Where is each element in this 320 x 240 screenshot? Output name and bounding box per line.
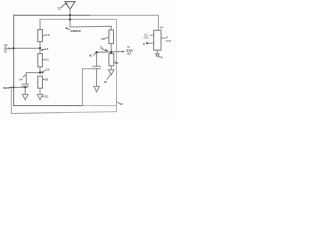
svg-text:32: 32 [45,95,49,99]
svg-text:22: 22 [45,57,49,61]
wire antenna feed [70,9,111,30]
wire inner bottom rail [14,105,83,107]
ground cap 66 [94,86,100,91]
junction node antenna rail1 [69,14,71,16]
leader 20 [117,102,120,103]
terminal B [146,42,148,44]
leader 22 [43,59,45,61]
pin right [161,37,165,39]
junction node 18 [39,47,41,49]
pin left 2 [148,42,154,44]
svg-text:76: 76 [159,55,163,59]
wire node 18 to R22 [39,48,41,53]
arrowhead antenna [65,27,67,29]
resistor 22 [38,54,43,67]
resistor 68 top center [109,30,114,44]
wire R16 to node 18 [39,42,41,49]
svg-text:18: 18 [45,47,49,51]
arrowhead bias [10,87,12,89]
wire inner bottom rail right [83,105,117,107]
wire cap branch [26,73,40,85]
svg-text:OUT: OUT [127,52,132,56]
leader 18 [42,48,45,51]
resistor 28 [38,76,43,88]
svg-text:ANTENNA: ANTENNA [70,29,82,33]
leader 26 [42,70,46,72]
mixer box U1 [154,30,161,50]
leader 32 [41,95,44,98]
leader 16 [43,35,46,36]
arrowhead rf in [12,48,14,50]
leader 34 [114,61,116,64]
arrowhead 18 [41,49,43,51]
wire R34 to ground 36 [110,66,112,70]
wire outer bottom rail right [60,112,117,113]
wire outer bottom rail [11,112,60,115]
leader 76 [158,56,159,57]
svg-text:OSC: OSC [144,36,150,39]
svg-text:28: 28 [45,78,49,82]
arrowhead 26 [41,72,43,74]
svg-text:OUT: OUT [166,40,172,43]
arrow bias [9,87,11,89]
svg-text:34: 34 [115,61,119,65]
ground 36 [108,70,114,75]
wire C66 to ground [96,69,98,87]
pin bottom [156,50,158,54]
svg-text:70: 70 [99,45,103,49]
wire left vertical bus [13,15,15,105]
junction node center [110,51,112,53]
arrowhead 70 [106,49,108,52]
leader antenna label [66,28,69,30]
wire R28 to ground [39,88,41,94]
junction node antenna rail2 [69,18,71,20]
wire top rail V+ [14,14,90,16]
wire right riser [116,19,118,111]
junction node 26 [39,71,41,73]
wire cap 66 drop [96,52,98,66]
leader 28 [43,78,45,80]
svg-text:24: 24 [160,26,164,30]
svg-text:IN: IN [4,50,7,54]
arrow rf in [10,47,13,49]
junction node bias [13,86,15,88]
wire left column top drop [39,19,41,29]
pin left 1 [150,34,154,36]
junction node cap 66 [95,51,97,53]
svg-text:68: 68 [101,37,105,41]
leader 66 [94,53,96,55]
antenna [65,2,75,10]
wire U branch [82,69,93,106]
wire second top rail [40,18,117,20]
capacitor 64 [22,84,29,86]
svg-text:66: 66 [89,53,93,57]
svg-text:64: 64 [19,77,23,81]
svg-text:12: 12 [57,7,61,11]
wire RF input [14,47,40,49]
leader 68 [105,37,109,39]
arrow IF out [122,50,125,53]
leader 64 [23,75,25,77]
svg-text:B: B [143,42,145,46]
wire top rail V+ right [90,15,158,30]
capacitor 66 [93,66,101,68]
svg-text:36: 36 [104,80,108,84]
wire R22 to node 26 [39,67,41,73]
junction node RF [13,47,15,49]
wire bias feed [11,86,27,88]
leader 36 [107,75,110,79]
wire R68 to node 70 [110,44,112,54]
resistor 34 center [109,54,114,66]
ground left column [37,94,43,99]
wire outer left riser [10,87,12,113]
resistor 16 [38,30,43,42]
ground box [156,54,160,57]
svg-text:16: 16 [46,33,50,37]
leader 12 [61,4,65,8]
leader 70 [102,49,106,51]
arrowhead 12 [65,3,67,5]
ground bias cap [22,94,28,99]
junction node cap bias [24,86,26,88]
svg-text:26: 26 [46,68,50,72]
svg-text:20: 20 [120,102,124,106]
wire IF out [97,51,123,54]
wire C64 to ground [24,86,26,94]
svg-text:BIAS: BIAS [3,86,9,90]
